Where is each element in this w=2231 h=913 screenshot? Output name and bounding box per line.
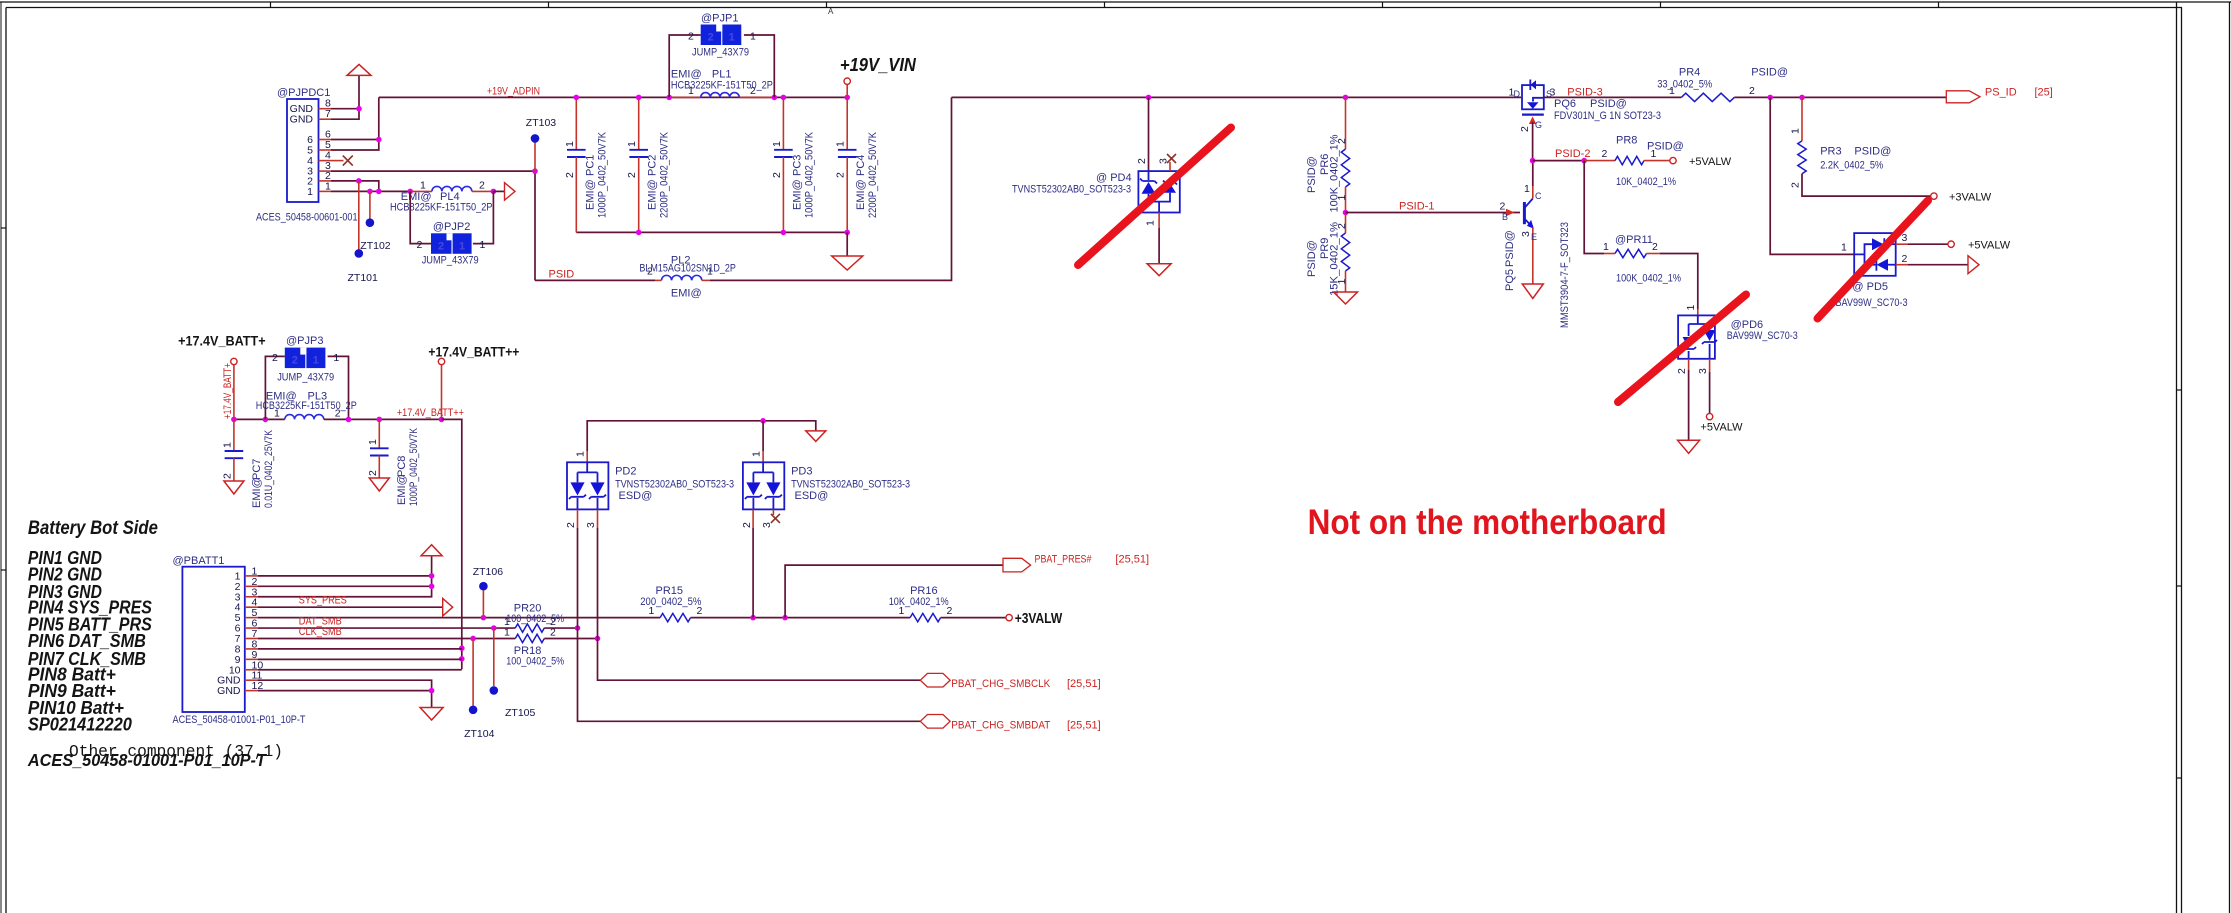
svg-text:GND: GND xyxy=(290,114,314,126)
svg-text:1: 1 xyxy=(751,451,763,457)
PR6 pin number 2 xyxy=(1336,138,1348,144)
value 100_0402_5% of PR18 xyxy=(506,655,564,667)
label PC8 xyxy=(396,456,408,477)
net +19V_ADPIN bus xyxy=(379,96,847,98)
label ZT105 xyxy=(505,707,536,719)
PR4 pin1 stub xyxy=(1544,96,1682,98)
resistor PR6 xyxy=(1341,149,1349,187)
PD6 pin number 3 xyxy=(1697,368,1709,374)
wire pin3 to PSID corner xyxy=(331,170,535,172)
junction row1 gnd xyxy=(429,573,435,579)
PC1 pin number 2 xyxy=(564,172,576,178)
PC8 pin number 1 xyxy=(367,439,379,445)
wire row6 DAT_SMB xyxy=(258,627,515,629)
label PC1 xyxy=(584,155,596,176)
svg-text:1: 1 xyxy=(564,141,576,147)
PJPDC1 pin 8 stub xyxy=(319,108,332,110)
capacitor PC2 xyxy=(629,150,648,157)
junction ZT106 row5 xyxy=(481,615,487,621)
ground below PQ5 xyxy=(1522,284,1543,299)
PJP3 pin number 1 xyxy=(333,352,339,364)
PJPDC1 pin 1 stub xyxy=(319,190,332,192)
PC7 pin number 1 xyxy=(221,442,233,448)
net label PSID-2 xyxy=(1555,148,1590,160)
net label PSID-1 xyxy=(1399,201,1434,213)
sheet ref [25] xyxy=(2035,87,2053,99)
PD4 pin number 3 xyxy=(1158,158,1170,164)
svg-text:PBAT_PRES#: PBAT_PRES# xyxy=(1035,554,1093,566)
value JUMP_43X79 of PJP3 xyxy=(277,372,334,384)
test point ZT105 xyxy=(490,686,499,695)
PBATT1 inside label pin 10 xyxy=(229,664,241,676)
PL2 pin number 1 xyxy=(707,266,713,278)
PBATT1 pin 1 stub xyxy=(245,575,258,577)
svg-text:PS_ID: PS_ID xyxy=(1985,87,2017,99)
PBATT1 pin 4 stub xyxy=(245,606,258,608)
svg-text:PQ6: PQ6 xyxy=(1554,98,1576,110)
PD6 pin1 stub xyxy=(1697,309,1699,315)
junction PR18 PD2pin3 xyxy=(595,636,601,642)
svg-text:1: 1 xyxy=(420,180,426,192)
wire pin2 to junction xyxy=(331,180,359,182)
ZT102 stub xyxy=(369,191,371,222)
svg-text:2: 2 xyxy=(1652,241,1658,253)
label PR9 xyxy=(1319,238,1331,259)
junction PR20 PD2pin2 xyxy=(575,625,581,631)
svg-text:ACES_50458-00601-001: ACES_50458-00601-001 xyxy=(256,212,358,224)
value 15K_0402_1% of PR9 xyxy=(1329,222,1341,296)
PR4 pin number 1 xyxy=(1669,85,1675,97)
svg-text:ZT103: ZT103 xyxy=(526,117,557,129)
PR18 pin number 1 xyxy=(504,626,510,638)
PJP1 pin number 1 xyxy=(750,31,756,43)
junction PQ6 gate PSID-2 xyxy=(1530,158,1536,164)
wire pin1 to PL4 xyxy=(331,190,410,192)
diode PD5 body xyxy=(1854,233,1896,276)
PQ6 pin number 2 xyxy=(1519,126,1531,132)
PL3 pin number 1 xyxy=(274,407,280,419)
PBATT1 pin 9 stub xyxy=(245,658,258,660)
label PL2 xyxy=(671,255,691,267)
svg-text:3: 3 xyxy=(1902,232,1908,244)
PD2 pin1 stub xyxy=(586,451,588,462)
junction PD5 tap xyxy=(1767,95,1773,101)
label PR16 xyxy=(910,585,938,597)
capacitor PC4 xyxy=(838,150,857,157)
junction PD4 tap xyxy=(1146,95,1152,101)
svg-text:@PJP1: @PJP1 xyxy=(701,13,738,25)
value BAV99W_SC70-3 of PD5 xyxy=(1836,297,1908,309)
PR9 pin number 2 xyxy=(1336,223,1348,229)
svg-text:1: 1 xyxy=(729,32,735,44)
svg-text:+3VALW: +3VALW xyxy=(1015,611,1063,627)
svg-text:PD3: PD3 xyxy=(791,466,812,478)
test point ZT103 xyxy=(531,134,540,143)
svg-text:BAV99W_SC70-3: BAV99W_SC70-3 xyxy=(1836,297,1908,309)
PL1 pin number 1 xyxy=(688,85,694,97)
svg-text:1: 1 xyxy=(771,141,783,147)
PR8 pin1 stub xyxy=(1644,160,1670,162)
junction pin2 ZT101 xyxy=(356,178,362,184)
value HCB3225KF-151T50_2P of PL3 xyxy=(256,400,357,412)
label PSID@ of PR4 xyxy=(1751,66,1788,78)
PD2 pin3 wire SMBCLK xyxy=(598,528,921,680)
junction PR6 tap xyxy=(1343,95,1349,101)
label ESD@ of PD3 xyxy=(795,490,829,502)
junction PBAT_PRES riser xyxy=(782,615,788,621)
PD4 pin number 2 xyxy=(1136,158,1148,164)
PD2 pin number 3 xyxy=(585,522,597,528)
PC7 bottom wire xyxy=(233,458,235,481)
junction PD3 pin1 xyxy=(760,418,766,424)
PBATT1 pin 8 stub xyxy=(245,648,258,650)
svg-text:PSID@: PSID@ xyxy=(1504,230,1516,267)
wire pin7 GND jog up xyxy=(331,109,359,120)
sheet border right double line xyxy=(2177,2,2182,913)
svg-text:2: 2 xyxy=(688,31,694,43)
junction ZT102 on pin1 net xyxy=(367,189,373,195)
value 0.01U_0402_25V7K xyxy=(263,429,275,508)
PR6 pin number 1 xyxy=(1336,195,1348,201)
svg-text:2: 2 xyxy=(771,172,783,178)
PD2 pin number 2 xyxy=(565,522,577,528)
ground below PD6 xyxy=(1678,440,1700,453)
value TVNST52302AB0_SOT523-3 of PD4 xyxy=(1012,183,1131,195)
junction pin8 GND xyxy=(356,106,362,112)
cap bottom bus xyxy=(576,231,847,233)
PJPDC1 pin 7 stub xyxy=(319,118,332,120)
PBATT1 pin number 12 xyxy=(252,680,264,692)
junction PC4 bottom xyxy=(844,230,850,236)
PBATT1 pin number 3 xyxy=(252,586,258,598)
svg-text:[25]: [25] xyxy=(2035,87,2053,99)
value JUMP_43X79 of PJP1 xyxy=(692,47,749,59)
power text +5VALW at PD6 xyxy=(1700,422,1743,434)
svg-text:+19V_VIN: +19V_VIN xyxy=(840,55,917,75)
off-page flag PS_ID xyxy=(1946,91,1980,103)
PJPDC1 inside label pin 4 xyxy=(307,155,313,167)
svg-text:1: 1 xyxy=(307,186,313,198)
PJPDC1 inside label pin 2 xyxy=(307,175,313,187)
capacitor PC3 xyxy=(774,150,793,157)
svg-text:+17.4V_BATT+: +17.4V_BATT+ xyxy=(222,363,234,419)
svg-text:ZT102: ZT102 xyxy=(360,240,391,252)
PC8 top wire xyxy=(378,419,380,448)
terminal circle +19V_VIN xyxy=(844,78,850,84)
PD5 pin3 wire to +5VALW xyxy=(1908,243,1948,245)
label @PBATT1 xyxy=(173,555,225,567)
svg-text:ESD@: ESD@ xyxy=(619,490,653,502)
PQ5 pin number 1 xyxy=(1524,183,1530,195)
PC2 bottom wire xyxy=(638,157,640,232)
svg-text:PC7: PC7 xyxy=(251,459,263,480)
svg-text:3: 3 xyxy=(1697,368,1709,374)
svg-text:SP021412220: SP021412220 xyxy=(28,715,132,735)
svg-text:2: 2 xyxy=(438,240,444,252)
label ESD@ of PD2 xyxy=(619,490,653,502)
PR11 pin number 1 xyxy=(1603,241,1609,253)
label ZT104 xyxy=(464,728,495,740)
PD3 pin number 3 xyxy=(761,522,773,528)
wire +17.4V_BATT++ drop xyxy=(441,365,443,420)
junction pin6 riser xyxy=(376,137,382,143)
label PR15 xyxy=(656,585,684,597)
PBATT1 inside label pin 12 xyxy=(217,685,241,697)
wire row1 GND xyxy=(258,575,432,577)
net label PBAT_PRES# xyxy=(1035,554,1093,566)
svg-text:+17.4V_BATT++: +17.4V_BATT++ xyxy=(428,345,519,360)
junction PC8 top xyxy=(377,417,383,423)
PC2 pin number 1 xyxy=(626,141,638,147)
label PSID@ of PQ5 xyxy=(1504,230,1516,267)
PC2 top wire xyxy=(638,97,640,149)
PJPDC1 pin 6 stub xyxy=(319,139,332,141)
svg-text:2: 2 xyxy=(1902,253,1908,265)
net label DAT_SMB xyxy=(299,615,342,627)
svg-text:ZT101: ZT101 xyxy=(348,272,379,284)
off-page arrow SYS_PRES xyxy=(443,598,453,616)
PBATT1 inside label pin 3 xyxy=(235,591,241,603)
PR8 pin number 2 xyxy=(1602,148,1608,160)
svg-text:EMI@: EMI@ xyxy=(584,179,596,210)
svg-text:PBAT_CHG_SMBDAT: PBAT_CHG_SMBDAT xyxy=(951,719,1050,731)
PR11 pin1 stub xyxy=(1604,253,1615,255)
svg-text:PQ5: PQ5 xyxy=(1504,269,1516,291)
label EMI@ PC8 xyxy=(396,474,408,505)
PBATT1 pin 2 stub xyxy=(245,585,258,587)
PC3 top wire xyxy=(782,97,784,149)
junction row2 gnd xyxy=(429,584,435,590)
svg-text:ACES_50458-01001-P01_10P-T: ACES_50458-01001-P01_10P-T xyxy=(27,750,267,770)
value FDV301N_G 1N SOT23-3 xyxy=(1554,110,1661,122)
label @ PD4 xyxy=(1096,172,1132,184)
PL4 pin number 2 xyxy=(479,180,485,192)
connector @PBATT1 body xyxy=(182,567,244,712)
wire row8 batt xyxy=(258,648,462,650)
value HCB8225KF-151T50_2P xyxy=(390,202,493,214)
value 10K_0402_1% of PR8 xyxy=(1616,176,1676,188)
capacitor PC7 xyxy=(225,451,244,458)
wire PR11 to PD6 xyxy=(1660,254,1698,310)
PQ5 collector stub xyxy=(1532,186,1534,199)
battery pin note PIN4 SYS_PRES xyxy=(28,597,152,617)
ZT106 stub xyxy=(482,590,484,618)
PC3 pin number 1 xyxy=(771,141,783,147)
svg-text:0.01U_0402_25V7K: 0.01U_0402_25V7K xyxy=(263,429,275,508)
diode PD2 body xyxy=(567,462,608,509)
svg-text:ZT104: ZT104 xyxy=(464,728,495,740)
label PC7 xyxy=(251,459,263,480)
test point ZT104 xyxy=(469,706,478,715)
PJP3 pin number 2 xyxy=(272,352,278,364)
PR3 pin number 2 xyxy=(1790,182,1802,188)
label EMI@ PC4 xyxy=(855,179,867,210)
svg-text:2: 2 xyxy=(1500,201,1506,213)
PBATT1 pin 6 stub xyxy=(245,627,258,629)
PC3 pin number 2 xyxy=(771,172,783,178)
jumper @PJP3 xyxy=(285,348,326,369)
PQ5 collector letter C xyxy=(1535,191,1542,201)
svg-text:1: 1 xyxy=(459,240,465,252)
power text +3VALW bold xyxy=(1015,611,1063,627)
svg-text:2: 2 xyxy=(292,355,298,367)
PD2 pin2 wire SMBDAT xyxy=(578,528,921,721)
PR6 bottom stub xyxy=(1345,187,1347,213)
junction PSID-2 split xyxy=(1581,158,1587,164)
transistor PQ6 symbol xyxy=(1522,80,1544,115)
PJPDC1 pin number 6 xyxy=(325,129,331,141)
power text +3VALW at PR3 xyxy=(1949,192,1992,204)
PJP2 pin number 1 xyxy=(480,239,486,251)
no-connect X on PD4 pin3 xyxy=(1167,154,1176,163)
label PR8 xyxy=(1616,135,1637,147)
svg-text:PR3: PR3 xyxy=(1820,146,1841,158)
vertical net label +17.4V_BATT+ xyxy=(222,363,234,419)
svg-text:@PJP3: @PJP3 xyxy=(286,335,323,347)
ground below PR9 xyxy=(1334,292,1358,304)
PR3 pin number 1 xyxy=(1790,128,1802,134)
power text +5VALW at PR8 xyxy=(1689,156,1732,168)
svg-text:PSID@: PSID@ xyxy=(1306,156,1318,193)
label PL4 xyxy=(440,191,460,203)
PR15 pin number 1 xyxy=(649,605,655,617)
note Not on the motherboard xyxy=(1308,503,1667,542)
junction BATT++ tap xyxy=(439,417,445,423)
battery pin note PIN6 DAT_SMB xyxy=(28,631,146,651)
net label PS_ID xyxy=(1985,87,2017,99)
wire PR16 to +3VALW xyxy=(941,617,1006,619)
PJP1 loop left xyxy=(669,35,701,97)
PBATT1 inside label pin 1 xyxy=(235,570,241,582)
PD6 pin2 stub xyxy=(1688,359,1690,370)
PL4 pin1 stub xyxy=(410,190,432,192)
battery pin note PIN7 CLK_SMB xyxy=(28,649,146,669)
test point ZT106 xyxy=(479,582,488,591)
svg-text:1000P_0402_50V7K: 1000P_0402_50V7K xyxy=(596,131,608,218)
svg-text:2.2K_0402_5%: 2.2K_0402_5% xyxy=(1820,160,1883,172)
PL1 pin1 stub xyxy=(669,96,701,98)
svg-text:D: D xyxy=(1514,89,1521,99)
junction ZT104 row7 xyxy=(470,636,476,642)
value BAV99W_SC70-3 of PD6 xyxy=(1727,330,1798,342)
ZT103 stub xyxy=(534,138,536,171)
PJPDC1 inside label pin 7 xyxy=(290,114,314,126)
sheet border left lines xyxy=(1,2,6,913)
PD3 pin2 wire xyxy=(752,528,754,618)
junction PL4 pin1 xyxy=(407,189,413,195)
svg-text:2: 2 xyxy=(741,522,753,528)
svg-text:EMI@: EMI@ xyxy=(396,474,408,505)
PR15 pin number 2 xyxy=(697,605,703,617)
svg-text:PSID-1: PSID-1 xyxy=(1399,201,1434,213)
net +17.4V_BATT++ to rows xyxy=(442,419,462,669)
net PBAT_PRES riser xyxy=(785,565,1003,618)
svg-text:PC4: PC4 xyxy=(855,155,867,176)
svg-text:EMI@: EMI@ xyxy=(671,288,702,300)
value MMST3904-7-F_SOT323 xyxy=(1559,222,1571,328)
svg-text:1: 1 xyxy=(750,31,756,43)
off-page arrow after PL4 xyxy=(505,183,516,201)
svg-text:+17.4V_BATT++: +17.4V_BATT++ xyxy=(397,407,464,419)
label ZT106 xyxy=(473,566,504,578)
sheet border zone ticks left and right xyxy=(1,228,2182,778)
PJP3 loop right xyxy=(328,356,349,419)
net PSID horizontal xyxy=(535,279,655,281)
svg-text:2: 2 xyxy=(272,352,278,364)
capacitor PC1 xyxy=(567,150,586,157)
PBATT1 inside label pin 11 xyxy=(217,675,241,687)
PJPDC1 inside label pin 3 xyxy=(307,166,313,178)
svg-text:+3VALW: +3VALW xyxy=(1949,192,1992,204)
PD5 pin3 stub xyxy=(1896,243,1908,245)
PL2 pin2 stub xyxy=(655,279,662,281)
label EMI@ PL1 xyxy=(671,69,702,81)
diode PD4 body xyxy=(1138,171,1179,212)
junction row9 batt xyxy=(459,656,465,662)
PD3 pin2 stub xyxy=(752,509,754,528)
jumper @PJP1 xyxy=(701,25,742,46)
label EMI@ PC7 xyxy=(251,477,263,508)
svg-text:PSID@: PSID@ xyxy=(1854,146,1891,158)
sheet ref [25,51] of SMBDAT xyxy=(1067,719,1101,731)
svg-text:E: E xyxy=(1531,232,1537,242)
PD4 pin1 wire xyxy=(1158,228,1160,264)
PD4 pin1 stub xyxy=(1158,213,1160,229)
ground below PBATT1 xyxy=(420,708,443,721)
svg-text:ESD@: ESD@ xyxy=(795,490,829,502)
PR6 top stub xyxy=(1345,97,1347,149)
ground below PC4 xyxy=(832,256,863,270)
PJP2 pin number 2 xyxy=(417,239,423,251)
svg-text:2: 2 xyxy=(708,32,714,44)
sheet border zone letter A xyxy=(828,7,834,16)
resistor PR18 xyxy=(515,634,544,642)
ZT101 stub xyxy=(358,181,360,254)
svg-text:1000P_0402_50V7K: 1000P_0402_50V7K xyxy=(803,131,815,218)
PQ5 emitter letter E xyxy=(1531,232,1537,242)
label PC2 xyxy=(647,155,659,176)
label ZT102 xyxy=(360,240,391,252)
ground below PC8 xyxy=(369,478,389,491)
svg-text:33_0402_5%: 33_0402_5% xyxy=(1657,79,1712,91)
label PR4 xyxy=(1679,66,1700,78)
PD3 pin number 1 xyxy=(751,451,763,457)
terminal circle +17.4V_BATT+ xyxy=(231,358,237,364)
PD5 pin2 stub xyxy=(1896,264,1908,266)
diode PD3 body xyxy=(743,462,784,509)
label PL3 xyxy=(308,391,328,403)
junction PL1 pin2 loop xyxy=(772,95,778,101)
not-populated slash over PD5 xyxy=(1818,201,1929,319)
wire +17.4V_BATT+ drop xyxy=(233,365,235,420)
svg-text:CLK_SMB: CLK_SMB xyxy=(299,626,342,638)
resistor PR11 xyxy=(1615,249,1647,257)
label ACES_50458-01001-P01_10P-T of PBATT1 xyxy=(173,714,306,726)
resistor PR8 xyxy=(1615,156,1644,164)
ground at ESD line xyxy=(806,431,826,442)
svg-text:1: 1 xyxy=(1790,128,1802,134)
ground below PC7 xyxy=(224,481,244,494)
terminal circle +5VALW at PR8 xyxy=(1670,157,1676,163)
svg-text:ZT106: ZT106 xyxy=(473,566,504,578)
svg-text:+5VALW: +5VALW xyxy=(1968,240,2011,252)
PL1 pin number 2 xyxy=(750,85,756,97)
test point ZT102 xyxy=(366,218,375,227)
PBATT1 pin number 5 xyxy=(252,607,258,619)
svg-text:1: 1 xyxy=(1685,305,1697,311)
value PC1 xyxy=(596,131,608,218)
terminal circle +5VALW at PD5 xyxy=(1948,241,1954,247)
